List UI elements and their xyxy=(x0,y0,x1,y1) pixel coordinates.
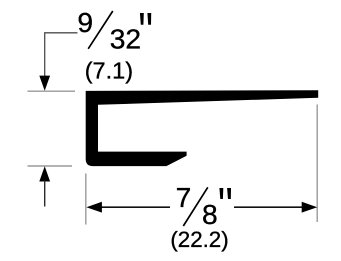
leader elbow line for 9/32 dimension xyxy=(45,33,78,77)
svg-text:(22.2): (22.2) xyxy=(170,227,228,252)
dimension line right segment (7/8) xyxy=(234,206,304,208)
arrowhead pointing down (9/32 top) xyxy=(39,76,50,91)
svg-text:9: 9 xyxy=(77,6,93,38)
profile cross-section (black J-trim shape) xyxy=(86,90,319,166)
svg-text:8: 8 xyxy=(202,198,218,230)
inch marks after 9/32 xyxy=(140,13,144,25)
arrowhead pointing left (7/8) xyxy=(86,202,102,213)
dimension line left segment (7/8) xyxy=(100,206,170,208)
svg-text:32: 32 xyxy=(110,23,141,55)
arrowhead pointing right (7/8) xyxy=(302,202,318,213)
fraction slash of 7/8 xyxy=(183,187,208,226)
shaft below up-arrow xyxy=(44,181,46,207)
fraction slash of 9/32 xyxy=(88,11,113,49)
arrowhead pointing up (9/32 bottom) xyxy=(39,166,50,181)
left extension line (7/8 dimension) xyxy=(85,174,87,225)
right extension line (7/8 dimension) xyxy=(316,105,318,223)
bottom extension line (bottom of profile) xyxy=(28,165,73,167)
svg-text:7: 7 xyxy=(176,181,192,213)
inch marks after 7/8 xyxy=(219,188,223,199)
top extension line (top of profile) xyxy=(28,90,76,92)
svg-text:(7.1): (7.1) xyxy=(85,58,133,84)
